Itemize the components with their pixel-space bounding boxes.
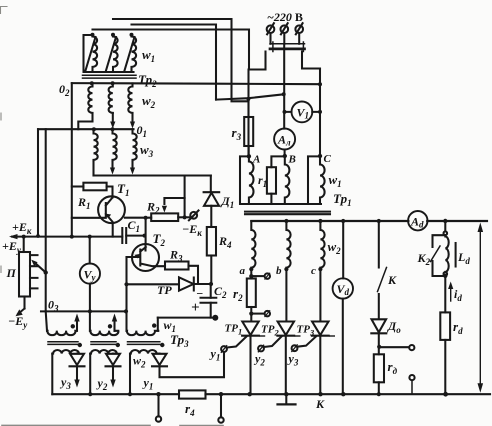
wire Vy to O3 line (89, 284, 91, 331)
wire TP2 cathode to bus (285, 336, 287, 395)
arrow w2 coil2 output (112, 113, 114, 123)
wire y2 gate lead (264, 337, 282, 348)
node bus-rd load (443, 392, 448, 397)
resistor r3 (247, 99, 249, 117)
node TP-R4-C2 (209, 282, 213, 286)
svg-text:ТР3: ТР3 (297, 324, 315, 338)
node w2 coil2 top (111, 81, 115, 85)
wire TP3 cathode to bus (319, 336, 321, 395)
node b (284, 267, 288, 271)
svg-text:a: a (240, 265, 246, 277)
terminal r4 left (157, 394, 159, 416)
wire secondary top bus (251, 220, 487, 222)
svg-text:у3: у3 (287, 352, 299, 368)
node C2 output blob (212, 315, 218, 321)
node bus-rd (377, 392, 381, 396)
wire Do to rd2 (378, 333, 380, 354)
transistor T2 (132, 244, 159, 271)
node rail-Vy column (88, 235, 92, 239)
contact K2 bypass (433, 235, 446, 276)
resistor R1 (72, 185, 84, 187)
wire bottom bus right of r4 (206, 393, 491, 395)
wire O1 drop to rail (37, 129, 39, 236)
node bus-r4 left (156, 392, 160, 396)
svg-text:Vd: Vd (337, 282, 350, 297)
node Tp3 w1 polarity dot (152, 323, 156, 327)
wire y3 gate lead (297, 337, 316, 347)
svg-text:w2: w2 (142, 93, 156, 110)
wire c to TP3 (319, 269, 321, 321)
resistor R3 (165, 262, 189, 270)
arrow w3 coil3 output (131, 161, 133, 168)
node bus-TP1 (248, 392, 252, 396)
wire phase A bracket (240, 156, 249, 204)
wire w3 coil1 down to output line (92, 161, 94, 176)
node bus-Tp3 (128, 392, 132, 396)
svg-text:id: id (454, 287, 462, 303)
svg-text:Тр2: Тр2 (138, 72, 157, 89)
node bus-Vd (341, 392, 345, 396)
wire T2 collector drop (145, 218, 147, 244)
wire R3 to TP gate (189, 266, 199, 284)
node -Ek junction (183, 215, 187, 219)
diode D1 (204, 191, 220, 193)
node wiper junction (44, 270, 48, 274)
node Vy-O3 (88, 309, 92, 313)
wire +Ek rail with arrow (12, 236, 122, 238)
wire Tp3a (y3 channel) secondary left to bus (51, 354, 53, 395)
node c (318, 267, 322, 271)
node bus-Vd (341, 219, 345, 223)
resistor R4 (207, 227, 216, 256)
thyristor TP3 (312, 322, 328, 336)
terminal y2 gate (258, 346, 264, 352)
wire O3 to Tp3a primary (46, 311, 47, 330)
terminal r2 bottom (251, 313, 264, 315)
svg-text:у2: у2 (253, 352, 265, 368)
node bus-K2 branch (443, 219, 447, 223)
svg-text:П: П (6, 266, 17, 280)
node Tp3a primary dot (71, 324, 75, 328)
core of Tp2 (83, 75, 137, 78)
capacitor C2 (210, 284, 212, 298)
node phase B (283, 154, 287, 158)
svg-text:C1: C1 (128, 218, 141, 234)
pulse transformer Tp3 (y1 channel) primary winding (127, 331, 159, 335)
svg-text:+Ек: +Ек (12, 220, 32, 236)
winding Tp1 phase C (320, 156, 325, 204)
winding secondary of Tp3 (y1 channel) (130, 350, 160, 354)
voltmeter Vd (342, 221, 344, 278)
node B-line junction (282, 92, 286, 96)
resistor r4 (179, 390, 206, 398)
winding w1 of Tp2 (three coils with variac slashes) (93, 35, 98, 72)
svg-text:r2: r2 (233, 286, 243, 303)
node Tp3 (y1 channel) secondary polarity dot (160, 343, 164, 347)
node V1 left (283, 110, 287, 114)
wire phase B drop (switch middle pole) (283, 44, 285, 129)
svg-text:ТР1: ТР1 (225, 323, 243, 337)
svg-text:w2: w2 (328, 239, 342, 256)
node Tp3b (y2 channel) secondary polarity dot (116, 343, 120, 347)
wire Tp1 primary star bottom (240, 203, 321, 205)
node rail-T2 collector (143, 234, 147, 238)
svg-text:у2: у2 (96, 376, 108, 392)
diode of Tp3b (y2 channel) output (112, 353, 114, 355)
svg-text:rд: rд (388, 359, 398, 376)
wire rd to bus (378, 382, 380, 394)
wire P bottom to -Ey (23, 297, 25, 309)
arrow id (450, 287, 452, 301)
node bus-b (284, 219, 288, 223)
node Tp2 w1 top x=131.5 (130, 33, 134, 37)
svg-text:ТР2: ТР2 (261, 324, 279, 338)
svg-text:C2: C2 (214, 284, 227, 300)
svg-text:01: 01 (137, 123, 148, 139)
switch S knife bars (270, 43, 305, 45)
core of Tp3b (y2 channel) (91, 342, 116, 345)
wire C2 bottom line to Tp3 (158, 317, 217, 319)
svg-text:02: 02 (59, 82, 70, 98)
node bus-r4 right (219, 392, 223, 396)
contact terminal top (444, 231, 448, 235)
wire R4 bottom to TP node (210, 256, 212, 285)
wire rd to bottom bus (444, 340, 446, 394)
svg-text:До: До (387, 319, 401, 335)
svg-text:К: К (387, 273, 397, 287)
terminal lower tap (411, 380, 413, 394)
wire Vd to bottom bus (342, 299, 344, 395)
svg-text:rd: rd (453, 319, 463, 336)
wire node O1 line (38, 128, 134, 130)
svg-text:~220 В: ~220 В (267, 10, 303, 24)
arrow y3 output (76, 366, 78, 380)
voltmeter V1 (285, 111, 321, 113)
svg-text:Тр1: Тр1 (333, 191, 352, 208)
wire switch left pole to phase A drop (249, 52, 266, 70)
node Tp3a (y3 channel) secondary polarity dot (78, 343, 82, 347)
node rail-P top (22, 235, 26, 239)
wire phase B line to transistor area (216, 94, 284, 99)
wire Tp3b (y2 channel) secondary left to bus (89, 354, 91, 395)
terminal r4 right (220, 394, 222, 417)
inductor Ld (445, 235, 448, 272)
svg-text:Аd: Аd (410, 215, 424, 230)
wire phase A drop (247, 70, 249, 157)
node collector-T2 junction (144, 216, 148, 220)
node bus-Tp3b (88, 392, 92, 396)
svg-text:Тр3: Тр3 (170, 332, 189, 349)
wire O1/wiper column down to O3 (45, 129, 47, 311)
diode of Tp3 (y1 channel) output (158, 353, 160, 355)
svg-text:r4: r4 (185, 401, 195, 418)
scan artifact lines (1, 7, 224, 426)
core of Tp3 (y1 channel) (128, 342, 160, 345)
arrow w2 coil3 output (131, 113, 133, 123)
wire phase C bracket (308, 156, 320, 204)
resistor rd (load) (440, 312, 450, 340)
svg-text:C: C (324, 153, 332, 165)
node bus-TP2 (284, 392, 288, 396)
wire bundle phase 1 (top) (113, 19, 249, 101)
wire w2 top bus / node O2 (72, 83, 320, 84)
wire switch right pole (302, 52, 320, 69)
diode of Tp3a (y3 channel) output (76, 353, 78, 355)
svg-text:у1: у1 (142, 376, 154, 392)
terminal 220V phase 2 (281, 25, 289, 33)
resistor R2 (rheostat) (151, 213, 178, 221)
ammeter Ad (inline top bus) (408, 211, 427, 230)
wire w2 coil1 bottom jog (78, 113, 92, 129)
svg-text:К2: К2 (417, 251, 431, 267)
node C-line junction (318, 82, 322, 86)
svg-text:R1: R1 (77, 195, 91, 211)
core of Tp3a (y3 channel) (48, 342, 78, 345)
pulse transformer Tp3b (y2 channel) primary winding (90, 331, 118, 335)
node bus-K (377, 219, 381, 223)
switch K (378, 221, 380, 268)
svg-text:r3: r3 (232, 125, 242, 142)
svg-text:V1: V1 (297, 106, 310, 121)
svg-text:r1: r1 (258, 173, 267, 189)
node bus-TP3 (318, 392, 322, 396)
svg-text:ТР: ТР (157, 283, 172, 297)
node O1-w3 coil1 (92, 127, 96, 131)
node phase A (247, 154, 251, 158)
terminal -Ek (190, 212, 197, 219)
wire T1 collector line to R2 (125, 217, 151, 219)
winding Tp1 secondary phase a (251, 221, 255, 269)
svg-text:B: B (288, 154, 296, 166)
wire b to TP2 (285, 269, 287, 321)
resistor r1 (phase B) (271, 156, 284, 167)
node phase C (318, 154, 322, 158)
winding Tp1 secondary phase b (286, 221, 290, 269)
terminal y3 gate (292, 345, 298, 351)
wire Tp3 (y1 channel) secondary left to bus (129, 354, 131, 395)
node rail-O1 drop (36, 234, 40, 238)
wire K2 branch top (444, 221, 446, 231)
wire w3 line down to D1 (210, 176, 212, 193)
wire O2 drop to +Ek rail (71, 83, 73, 237)
wire TP line (127, 283, 180, 285)
resistor r2 (247, 279, 256, 308)
voltmeter Vy (89, 237, 91, 264)
node Tp2 w1 top x=92.5 (91, 33, 95, 37)
svg-text:−Ек: −Ек (182, 222, 202, 238)
svg-text:R4: R4 (218, 234, 232, 250)
pulse transformer Tp3a (y3 channel) primary winding (47, 331, 77, 335)
arrow pulse direction Tp3a (76, 319, 78, 331)
winding Tp1 phase A (249, 156, 254, 204)
svg-text:у1: у1 (209, 347, 221, 363)
svg-text:R3: R3 (169, 248, 183, 264)
svg-text:−Еу: −Еу (8, 314, 28, 330)
terminal Do tap (379, 346, 409, 348)
winding w2 of Tp2 (88, 83, 92, 113)
node r2 top tap (249, 274, 253, 278)
node Do-terminal tap (377, 345, 381, 349)
thyristor TP1 (242, 322, 258, 336)
wire D1 to R4 (210, 206, 212, 227)
wire rail C1 right segment (126, 235, 144, 237)
wire bundle phase 2 (132, 25, 217, 100)
node K2 bottom join (443, 274, 447, 278)
wire drop to Tp3 w1 (157, 318, 159, 331)
terminal r2 top (251, 275, 264, 277)
terminal 220V phase 3 (295, 25, 303, 33)
svg-text:b: b (276, 265, 282, 277)
terminal 220V phase 1 (267, 25, 275, 33)
node V1 right (318, 110, 322, 114)
capacitor C1 (122, 228, 126, 243)
contact terminal bottom (444, 272, 448, 276)
node Tp3b primary dot (108, 324, 112, 328)
wire T1 base (72, 217, 106, 219)
node Tp2 w1 top x=113 (111, 33, 115, 37)
winding w3 of Tp2 (94, 129, 98, 161)
ammeter Al (inline phase B) (274, 129, 295, 150)
node rail-R1 column (70, 235, 74, 239)
wiper arrow of P (35, 263, 46, 273)
svg-text:w2: w2 (133, 354, 146, 370)
wire r2 bottom (250, 307, 252, 321)
terminal y1 gate (221, 346, 227, 352)
wire O3 line (41, 310, 125, 312)
dimension arrow Ud (479, 228, 481, 387)
svg-text:w1: w1 (329, 172, 342, 189)
rheostat bracket of R2 (164, 198, 184, 217)
core bar of Ld (455, 243, 457, 267)
wire bottom control bus left (52, 393, 179, 395)
wire T2 emitter column (125, 257, 127, 331)
diode Do (372, 319, 387, 332)
node r2 bottom tap (249, 312, 253, 316)
svg-text:К: К (315, 397, 325, 411)
svg-text:R2: R2 (146, 200, 160, 216)
svg-text:Ал: Ал (277, 133, 291, 148)
arrow pulse direction Tp3b (113, 319, 115, 331)
svg-text:T2: T2 (153, 231, 166, 248)
svg-text:w1: w1 (142, 47, 155, 64)
node O1-w3 coil2 (111, 127, 115, 131)
svg-text:Vу: Vу (84, 268, 97, 283)
winding Tp1 phase B (285, 156, 290, 204)
wire -Ek node up to w3 line (184, 177, 186, 199)
potentiometer P (23, 237, 25, 252)
svg-text:+: + (191, 300, 200, 316)
svg-text:w3: w3 (140, 142, 154, 159)
arrow y2 output (112, 366, 114, 380)
node A-drop junction (246, 97, 250, 101)
wire R2 right to -Ek node (178, 216, 190, 218)
node a (249, 267, 253, 271)
wire to rd (444, 276, 446, 313)
core of Tp1 (245, 212, 330, 215)
node w2 coil1 top (90, 81, 94, 85)
svg-text:T1: T1 (117, 181, 129, 198)
wire y1 output to gate terminal (160, 352, 225, 377)
node T2emitter-TP line (124, 282, 128, 286)
winding secondary of Tp3a (y3 channel) (52, 350, 79, 354)
thyristor TP (179, 277, 194, 290)
ground symbol (285, 394, 287, 403)
wire bundle phase 3 (93, 30, 250, 70)
resistor rd (damping) (374, 354, 384, 382)
wire phase C drop (319, 69, 321, 157)
transistor T1 (98, 196, 125, 223)
svg-text:у3: у3 (59, 375, 71, 391)
arrow w3 coil2 output (111, 161, 113, 168)
winding Tp1 secondary phase c (320, 221, 324, 269)
transformer Tp2 frame (84, 35, 134, 72)
wire a to r2 (250, 269, 252, 278)
wire TP1 cathode to bus (249, 336, 251, 395)
thyristor TP2 (278, 322, 294, 336)
winding secondary of Tp3b (y2 channel) (90, 350, 117, 354)
node bus-c (318, 219, 322, 223)
node T2emitter-O3 line (124, 309, 128, 313)
wire y1 gate to TP1 cathode (227, 337, 247, 348)
svg-text:c: c (311, 265, 316, 277)
wire w3 output line to diode D1 (94, 174, 211, 176)
svg-text:Ld: Ld (457, 250, 470, 266)
svg-text:Д1: Д1 (221, 194, 235, 210)
